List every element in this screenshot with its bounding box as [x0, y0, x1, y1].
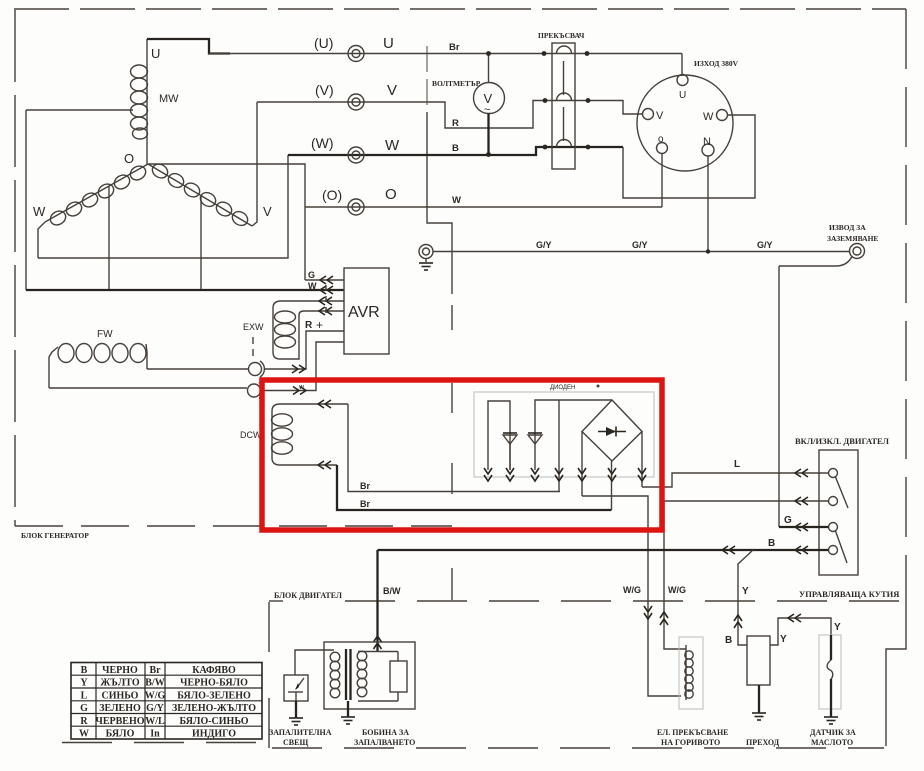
relay box PREHOD: [747, 636, 770, 685]
label DCW: [240, 430, 262, 440]
svg-text:ЧЕРВЕНО: ЧЕРВЕНО: [95, 716, 144, 727]
svg-text:G/Y: G/Y: [146, 703, 165, 714]
pin O of socket: [657, 134, 668, 207]
svg-text:Br: Br: [360, 499, 370, 509]
label R wire color: [452, 118, 459, 129]
svg-text:W: W: [385, 137, 400, 154]
svg-text:ДАТЧИК ЗА: ДАТЧИК ЗА: [810, 728, 856, 737]
wire FW bottom lead: [49, 387, 247, 389]
svg-text:(W): (W): [311, 135, 334, 151]
rectifier inner frame: [474, 392, 654, 477]
svg-text:БЛОК ГЕНЕРАТОР: БЛОК ГЕНЕРАТОР: [21, 531, 89, 540]
wire bridge left to fuel cutoff W/G: [582, 496, 681, 696]
svg-text:W: W: [33, 204, 46, 219]
svg-text:G: G: [80, 703, 88, 714]
ground ignition core: [341, 701, 355, 724]
svg-text:ПРЕКЪСВАЧ: ПРЕКЪСВАЧ: [538, 31, 585, 40]
wire G/Y earth line: [433, 251, 850, 253]
svg-text:B/W: B/W: [145, 678, 164, 689]
svg-text:In: In: [150, 729, 160, 740]
rectifier top bus 1: [488, 401, 510, 470]
svg-text:EXW: EXW: [243, 322, 264, 332]
label Br wire color: [449, 42, 460, 53]
svg-text:W/G: W/G: [668, 585, 686, 595]
wire V winding tap: [200, 196, 202, 290]
connector socket IZHOD 380V: [637, 75, 733, 171]
svg-text:Y: Y: [834, 622, 841, 633]
svg-text:ЗАПАЛВАНЕТО: ЗАПАЛВАНЕТО: [354, 738, 415, 747]
pin N of socket: [702, 136, 714, 252]
svg-text:V: V: [387, 82, 397, 99]
wire MW tap horizontal: [26, 109, 133, 111]
label: BLOK DVIGATEL: [274, 591, 342, 600]
wire W end to W terminal riser: [38, 155, 288, 258]
brush terminal 1: [249, 361, 265, 377]
terminal (V): [348, 94, 364, 110]
svg-text:ЗАПАЛИТЕЛНА: ЗАПАЛИТЕЛНА: [269, 728, 332, 737]
wire W winding tap: [108, 186, 110, 290]
svg-text:ИНДИГО: ИНДИГО: [192, 729, 236, 740]
svg-text:ИЗХОД 380V: ИЗХОД 380V: [694, 59, 739, 68]
winding DCW charge coil: [272, 400, 349, 469]
svg-text:(V): (V): [315, 82, 334, 98]
svg-text:G: G: [784, 515, 792, 526]
svg-text:ЗАЗЕМЯВАНЕ: ЗАЗЕМЯВАНЕ: [827, 234, 878, 243]
wire primary to spark plug: [295, 650, 334, 675]
junction dots U row: [486, 51, 589, 56]
diode D1: [503, 433, 517, 470]
border: page bottom dashed: [62, 743, 884, 749]
terminal (U): [348, 46, 364, 62]
svg-text:w: w: [298, 384, 305, 391]
svg-text:БЯЛО-СИНЬО: БЯЛО-СИНЬО: [180, 716, 249, 727]
voltmeter V1: [474, 54, 505, 155]
svg-text:ВКЛ/ИЗКЛ. ДВИГАТЕЛ: ВКЛ/ИЗКЛ. ДВИГАТЕЛ: [795, 436, 890, 446]
svg-text:U: U: [383, 35, 394, 52]
ignition primary winding: [330, 652, 340, 698]
wire V row: [257, 101, 642, 129]
label BOBINA ZA ZAPALVANETO: [354, 728, 415, 747]
svg-text:B: B: [452, 143, 459, 154]
label L: [734, 459, 740, 470]
svg-text:W: W: [452, 195, 461, 206]
svg-text:W/G: W/G: [145, 690, 166, 701]
border: engine block left: [268, 602, 270, 748]
wire G row to switch: [779, 515, 829, 531]
svg-text:G/Y: G/Y: [757, 240, 773, 250]
terminal IZVOD ZA ZAZEMYAVANE: [779, 244, 865, 267]
svg-text:AVR: AVR: [348, 304, 380, 321]
label FW: [97, 329, 113, 340]
ignition core: [346, 649, 351, 700]
svg-text:БЛОК ДВИГАТЕЛ: БЛОК ДВИГАТЕЛ: [274, 591, 342, 600]
pin U of socket: [677, 54, 688, 102]
svg-text:БЯЛО: БЯЛО: [106, 729, 135, 740]
AVR box U1: [344, 268, 389, 354]
svg-text:СВЕЩ: СВЕЩ: [283, 738, 308, 747]
svg-text:R: R: [80, 716, 88, 727]
junction dot N earth: [706, 249, 710, 253]
svg-text:БОБИНА ЗА: БОБИНА ЗА: [362, 728, 409, 737]
wire AVR input G row: [305, 270, 344, 284]
terminal (W): [348, 147, 364, 163]
spark plug box: [284, 675, 308, 701]
label U winding top: [151, 46, 160, 61]
wire MW top to U row step: [147, 39, 230, 54]
winding FW field coil: [49, 344, 147, 389]
label EL PREKASVANE NA GORIVOTO: [657, 728, 729, 747]
ground below oil sensor: [824, 717, 838, 724]
wire star point to O riser: [148, 164, 305, 280]
svg-text:ЧЕРНО: ЧЕРНО: [102, 665, 138, 676]
svg-text:ПРЕХОД: ПРЕХОД: [746, 738, 780, 747]
border: page left dashed: [14, 10, 16, 526]
svg-text:ЧЕРНО-БЯЛО: ЧЕРНО-БЯЛО: [180, 678, 248, 689]
svg-text:o: o: [658, 134, 664, 145]
svg-text:R: R: [452, 118, 459, 129]
label (W) W: [311, 135, 400, 154]
svg-text:ЗЕЛЕНО: ЗЕЛЕНО: [99, 703, 141, 714]
svg-text:W/G: W/G: [623, 585, 641, 595]
svg-text:НА ГОРИВОТО: НА ГОРИВОТО: [661, 738, 720, 747]
ground below PREHOD: [752, 685, 766, 720]
svg-text:N: N: [703, 136, 711, 148]
legend table: [71, 663, 262, 740]
winding V phase coil: [148, 161, 252, 228]
svg-text:W: W: [703, 111, 714, 123]
svg-text:L: L: [81, 690, 88, 701]
wire B/W ignition feed: [374, 550, 402, 652]
wire bridge right to switch L: [642, 469, 829, 487]
wire DCW top to Br1: [348, 404, 560, 492]
border: page top dashed: [14, 8, 906, 10]
svg-text:U: U: [151, 46, 160, 61]
oil sensor box DATCHIK: [819, 635, 841, 709]
svg-text:DCW: DCW: [240, 430, 262, 440]
winding W phase coil: [45, 163, 148, 227]
label O star point: [124, 151, 134, 166]
wire AVR input W row chevrons: [308, 281, 333, 294]
ground below spark plug: [289, 701, 303, 725]
svg-text:B: B: [725, 635, 732, 646]
engine switch box VKL/IZKL: [819, 450, 858, 575]
label charge coil faint: [550, 385, 600, 392]
svg-text:O: O: [385, 186, 397, 203]
svg-text:+: +: [316, 318, 323, 332]
label B wire color: [452, 143, 459, 154]
label: UPRAVLYAVASHTA KUTIA: [799, 589, 899, 599]
ground symbol at generator frame: [419, 245, 433, 271]
fuel cutoff solenoid coil: [685, 645, 693, 700]
svg-text:B/W: B/W: [383, 586, 401, 596]
label (V) V: [315, 82, 397, 99]
breaker box PREKASVACH: [552, 43, 575, 169]
wire W sense bus to AVR: [26, 289, 344, 291]
label V winding: [263, 204, 272, 219]
svg-text:Br: Br: [360, 481, 370, 491]
wire brush1 to AVR R: [264, 331, 344, 373]
wire brush2 to AVR plus: [263, 342, 344, 395]
labels W/G: [623, 585, 686, 595]
winding EXW exciter coil: [273, 297, 344, 359]
wire Y branch from B row: [725, 550, 753, 646]
label VOLTMETER: [432, 79, 481, 88]
svg-text:ЖЪЛТО: ЖЪЛТО: [100, 678, 139, 689]
wire switch row2 W/G: [660, 497, 829, 649]
brush terminal 2: [248, 383, 264, 399]
svg-text:V: V: [656, 110, 664, 122]
junction dots W row: [486, 145, 590, 157]
svg-text:G/Y: G/Y: [536, 240, 552, 250]
label Br 1: [360, 481, 370, 491]
svg-text:R: R: [305, 320, 313, 331]
resistor in ignition coil: [358, 661, 407, 701]
wire FW top lead: [147, 368, 248, 370]
terminal (O): [348, 199, 364, 215]
wire B row to switch: [378, 538, 829, 554]
rectifier arrows down: [484, 468, 646, 481]
svg-text:ИЗВОД ЗА: ИЗВОД ЗА: [829, 223, 866, 232]
svg-text:Y: Y: [80, 678, 88, 689]
border: generator block bottom dashed: [15, 525, 452, 527]
svg-text:G/Y: G/Y: [632, 240, 648, 250]
svg-text:ЕЛ. ПРЕКЪСВАНЕ: ЕЛ. ПРЕКЪСВАНЕ: [657, 728, 729, 737]
svg-text:W/L: W/L: [145, 716, 165, 727]
svg-text:УПРАВЛЯВАЩА КУТИЯ: УПРАВЛЯВАЩА КУТИЯ: [799, 589, 899, 599]
wire U row: [209, 53, 682, 55]
label EXW: [243, 322, 264, 332]
label MW: [159, 93, 179, 105]
junction dots V row: [543, 98, 591, 103]
wire W row: [288, 115, 755, 198]
wire V winding end riser: [252, 102, 257, 226]
wire O row: [305, 206, 662, 208]
label: BLOK GENERATOR: [21, 531, 89, 540]
diode D2: [528, 433, 542, 444]
ignition coil box: [324, 642, 415, 709]
svg-text:L: L: [734, 459, 740, 470]
wire W winding end down: [38, 222, 45, 258]
svg-text:ЗЕЛЕНО-ЖЪЛТО: ЗЕЛЕНО-ЖЪЛТО: [172, 703, 256, 714]
labels G/Y: [536, 240, 773, 250]
label VKL/IZKL DVIGATEL: [795, 436, 890, 446]
bridge output wires: [582, 432, 642, 511]
svg-text:СИНЬО: СИНЬО: [102, 690, 139, 701]
svg-text:O: O: [124, 151, 134, 166]
label PREKASVACH: [538, 31, 585, 40]
oil sensor switch: [827, 635, 833, 717]
wire secondary top and resistor: [358, 652, 398, 662]
pin W of socket: [703, 110, 728, 124]
label IZHOD 380V: [694, 59, 739, 68]
svg-text:ДИОДЕН: ДИОДЕН: [550, 385, 575, 391]
red highlight box: [262, 380, 662, 530]
label PREHOD: [746, 738, 780, 747]
svg-text:MW: MW: [159, 93, 179, 105]
wire left sense vertical: [25, 110, 27, 290]
wire earth to switch G: [778, 266, 780, 527]
svg-text:Y: Y: [780, 634, 787, 645]
border: page right dashed: [905, 9, 907, 598]
winding MW main winding coil: [131, 39, 148, 164]
label DATCHIK ZA MASLOTO: [810, 728, 856, 747]
label IZVOD ZA ZAZEMYAVANE: [827, 223, 878, 243]
wire DCW bottom to Br2: [337, 465, 612, 510]
svg-text:(O): (O): [322, 187, 342, 203]
ignition secondary winding: [357, 651, 367, 697]
fuel cutoff box: [679, 637, 703, 709]
svg-text:Br: Br: [149, 665, 161, 676]
svg-text:B: B: [81, 665, 88, 676]
label (O) O: [322, 186, 397, 203]
svg-text:W: W: [308, 281, 317, 291]
dashed stator-rotor separator: [253, 285, 326, 361]
svg-text:G: G: [308, 270, 315, 280]
label Br 2: [360, 499, 370, 509]
border: control box right: [886, 598, 906, 746]
svg-text:B: B: [768, 538, 775, 549]
svg-text:КАФЯВО: КАФЯВО: [192, 665, 236, 676]
label R plus: [305, 318, 323, 332]
bridge rectifier diamond: [582, 400, 642, 461]
border: engine block top dashed: [269, 600, 906, 602]
label W wire color on O row: [452, 195, 461, 206]
svg-text:U: U: [679, 90, 686, 101]
rectifier top bus 2: [535, 400, 612, 492]
svg-text:Br: Br: [449, 42, 460, 53]
svg-text:Y: Y: [742, 586, 749, 597]
label ZAPALITELNA SVESHT: [269, 728, 332, 747]
svg-text:(U): (U): [314, 35, 333, 51]
svg-text:V: V: [263, 204, 272, 219]
label W winding: [33, 204, 46, 219]
svg-text:ВОЛТМЕТЪР: ВОЛТМЕТЪР: [432, 79, 481, 88]
pin V of socket: [643, 109, 665, 123]
svg-text:МАСЛОТО: МАСЛОТО: [811, 738, 853, 747]
svg-text:БЯЛО-ЗЕЛЕНО: БЯЛО-ЗЕЛЕНО: [177, 690, 251, 701]
wire PREHOD to oil sensor Y: [770, 614, 841, 645]
svg-text:FW: FW: [97, 329, 113, 340]
svg-text:W: W: [79, 729, 89, 740]
label (U) U: [314, 35, 394, 52]
border: generator block right: [427, 46, 452, 600]
